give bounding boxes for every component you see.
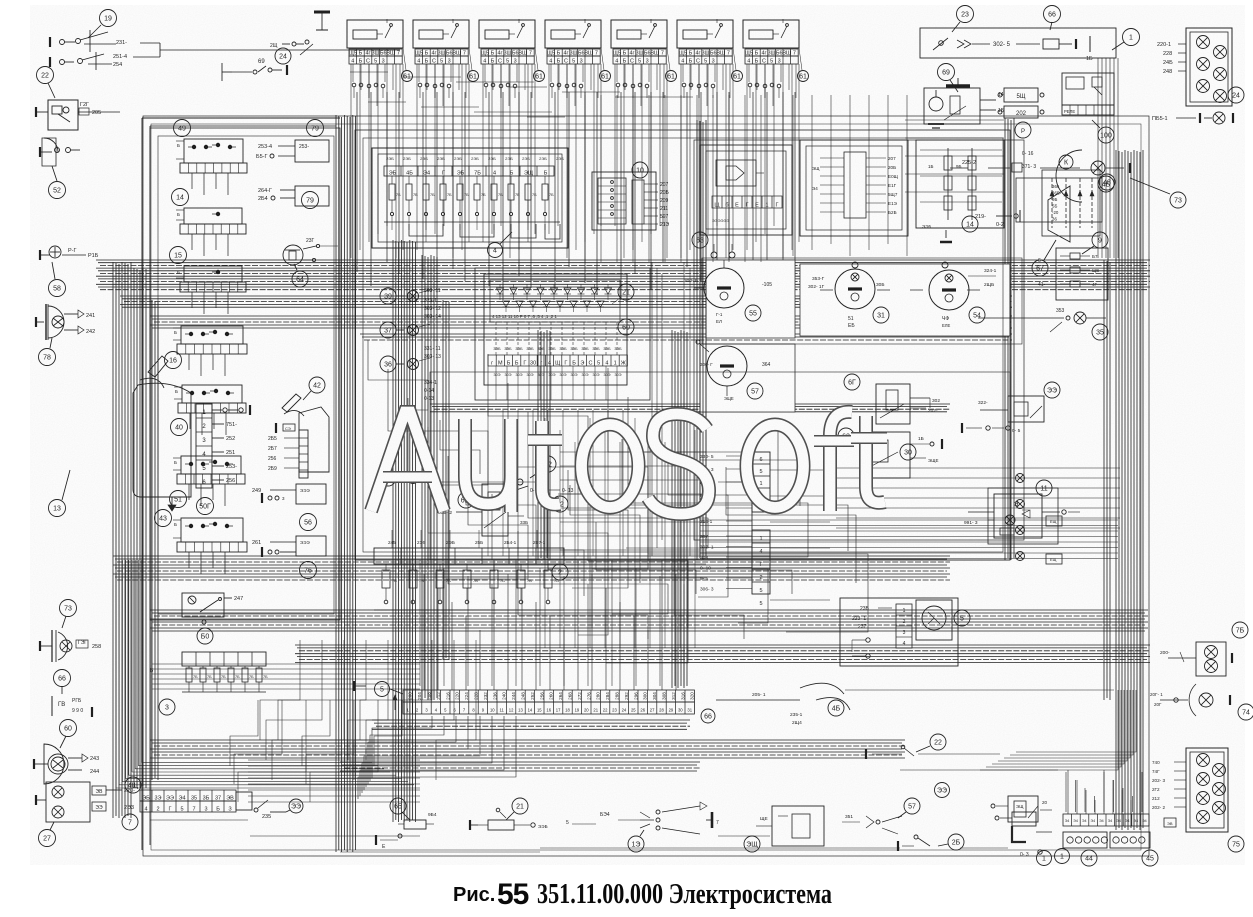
switch box S22 — [36, 67, 120, 131]
node 72 — [552, 496, 568, 512]
battery & fuses 69 — [924, 64, 1044, 139]
wire bus (band y650) — [295, 645, 1150, 662]
master terminal T1 — [270, 12, 330, 55]
fuse block 49 — [176, 139, 247, 173]
fuse block 50 — [173, 518, 247, 552]
switch 235 (bottom left) — [254, 799, 303, 820]
gauge cluster frames — [700, 260, 1010, 412]
node 1 — [1112, 29, 1140, 51]
sender block 46 (right) — [1016, 151, 1114, 222]
lamp 58 — [40, 246, 99, 297]
frame rectangles (left column) — [150, 128, 340, 620]
fuse box drop wires — [189, 173, 228, 574]
svg-text:55: 55 — [497, 878, 529, 911]
relay module K5 (top row) — [611, 19, 677, 106]
resistor 21 (bottom) — [470, 798, 548, 830]
fuse strip 3 (left bottom) — [150, 652, 268, 715]
label circle 40 — [171, 419, 188, 436]
fuse block 40 — [174, 385, 246, 413]
fuse block 14 — [176, 208, 246, 234]
label circle 16 — [165, 352, 182, 369]
verticals matrix to band — [488, 410, 623, 556]
fuse panel labels — [386, 156, 564, 161]
top center drop wires — [585, 95, 761, 262]
lamp panel 75 (bottom right) — [1152, 748, 1244, 852]
wire bus (top ring) — [96, 260, 1150, 307]
lamp 34 (mid-left low) — [380, 470, 419, 486]
indicator lamp 39 — [380, 288, 430, 304]
tail lamp block 27 — [36, 782, 135, 847]
wire bus (inner-left vertical) — [336, 115, 356, 852]
hazard unit 11 — [964, 480, 1080, 544]
dome lamp 73 (right) — [950, 150, 1186, 208]
indicator lamp 36 — [380, 356, 430, 372]
resistor block 9 — [1038, 232, 1108, 300]
relay module K3 (top row) — [479, 19, 545, 106]
switch 24/69 (top) — [222, 48, 291, 81]
wires connector 30 to right — [770, 470, 830, 600]
connector 56 (left) — [252, 484, 326, 531]
svg-text:Рис.: Рис. — [453, 884, 495, 906]
horn switch 64 — [283, 238, 338, 287]
top band drops right-center — [793, 95, 1002, 256]
main connector strip 66 — [375, 682, 716, 724]
terminal box (center right top) — [800, 140, 908, 236]
connector column 30 (center) — [700, 444, 916, 607]
frame rectangles (center) — [355, 130, 1010, 560]
connector 76 (left) — [252, 536, 326, 579]
wire bus (band y615) — [150, 610, 1148, 631]
twin lamp 76 (bottom right) — [1160, 622, 1248, 676]
motor unit (bottom center) — [744, 806, 824, 852]
label circle 79 — [302, 192, 319, 209]
watermark AutoSoft — [371, 412, 887, 514]
wire bus (x1010 vertical) — [1005, 118, 1014, 560]
battery (bottom right) — [995, 804, 1070, 864]
headlamp 73 — [40, 600, 101, 663]
center stair mesh — [368, 340, 868, 686]
resistor block 14 (right) — [916, 140, 1004, 232]
wire bus (right vertical ring) — [1104, 150, 1143, 830]
bottom connection runs — [150, 820, 1008, 852]
bottom-left stepped wires — [260, 640, 476, 780]
node 13 — [49, 470, 71, 517]
relay 61 (right mid) — [844, 374, 940, 424]
relay 247 (left bottom) — [182, 593, 243, 644]
relay module K6 (top row) — [677, 19, 743, 106]
wires relay row to bus — [357, 92, 795, 300]
relay module K2 (top row) — [413, 19, 479, 106]
fuse panel 4 (center top) — [372, 148, 568, 258]
label circle 50Г — [197, 498, 214, 515]
headlamp 60 (left) — [34, 720, 99, 785]
switch unit 10 — [592, 162, 670, 230]
wire bus (mid band y560) — [113, 556, 950, 580]
nested corner bends (bottom right) — [980, 690, 1142, 812]
stepped harness wires (center) — [440, 420, 856, 639]
right harness lines — [836, 468, 1120, 528]
caption — [453, 878, 832, 911]
switch 12 (center) — [510, 456, 574, 494]
fan wires into connector 66 — [410, 560, 676, 690]
label circle 15 — [170, 247, 187, 264]
horn 46 (bottom center) — [716, 683, 850, 726]
matrix wire labels — [493, 347, 622, 377]
bus under strip 66 — [372, 720, 690, 729]
connector pair 79 (left column top) — [256, 140, 329, 206]
wire bus (x545 vertical center) — [538, 330, 550, 560]
harness lines y520-560 right — [700, 520, 1118, 559]
gauge 55 (fuel) — [684, 244, 772, 324]
junction matrix 21/60 (center) — [475, 268, 650, 400]
lamp 35 (right) — [978, 308, 1108, 340]
bottom harness lines — [248, 760, 420, 802]
buzzer 67 (right) — [940, 186, 1070, 276]
relay module K4 (top row) — [545, 19, 611, 106]
charge line block (top right) — [920, 6, 1116, 63]
staircase under strip 66 — [358, 716, 516, 799]
logic unit 63 — [692, 145, 792, 248]
wire bus x700 — [697, 120, 706, 560]
wire bus (upper frame line) — [142, 118, 340, 850]
vertical lines right of matrix — [652, 262, 706, 556]
harness lines center-right — [560, 452, 706, 578]
relay 62 — [838, 428, 942, 478]
dimmer switch 42 — [268, 377, 329, 478]
gauge 164 (temp) — [696, 340, 771, 401]
fuse block 16 — [173, 326, 247, 354]
lamp 74 (bottom right) — [1150, 684, 1253, 720]
pump unit 5 (bottom right) — [840, 598, 970, 666]
fuse strip 2 (center bottom) — [374, 530, 568, 610]
center vertical drops — [545, 418, 695, 648]
sensor block 48 — [1042, 170, 1115, 236]
wire drops relay row — [351, 64, 799, 258]
label circle 14 — [172, 189, 189, 206]
headlamp 78 — [36, 304, 95, 366]
wire bus (second ring) — [150, 316, 1012, 340]
relay 68 (center) — [438, 484, 528, 536]
relay module K7 (top row) — [743, 19, 809, 106]
relay 34 (bottom right) — [935, 783, 1053, 823]
terminal (bottom left of strip) — [354, 681, 366, 691]
lamp unit 52 — [40, 138, 80, 199]
fuse block 51 — [173, 456, 245, 484]
steering-column connector 43 — [133, 356, 250, 527]
label circle 51 — [170, 491, 187, 508]
relay module K1 (top row) — [347, 19, 413, 106]
switch 22 (bottom right) — [866, 734, 1000, 759]
gauge 34 (oil) — [910, 262, 997, 328]
label circle 49 — [174, 120, 191, 137]
device 66 (left) — [52, 670, 92, 718]
switch 57 (bottom right) — [842, 798, 920, 834]
outer frame rectangles — [143, 116, 1149, 856]
indicator lamps (right of column) — [1016, 474, 1063, 565]
svg-text:351.11.00.000 Электросистема: 351.11.00.000 Электросистема — [537, 879, 832, 910]
gauge 31 (ammeter) — [808, 262, 890, 329]
fuse block 15 — [176, 266, 246, 292]
switch 28 (bottom right) — [898, 834, 964, 851]
wire bus under matrix — [430, 404, 950, 412]
wire bus (x680 vertical center) — [672, 330, 687, 688]
relay 99 (right mid) — [962, 382, 1060, 434]
lamp 24 line — [1152, 112, 1233, 124]
top right drops — [905, 58, 1118, 258]
wire bus (bottom band y765) — [340, 762, 700, 771]
wire runs right bottom — [845, 690, 1114, 770]
label circle 79 — [307, 120, 324, 137]
frame rectangles (right) — [694, 140, 1024, 540]
connector strips 44/45 (bottom right) — [1037, 814, 1159, 866]
nested corner bends (bottom left) — [116, 560, 420, 788]
indicator lamp 37 — [380, 322, 430, 338]
wire bus (column x395) — [393, 240, 449, 822]
regulator relay (top right) — [1062, 73, 1114, 143]
instrument lamp panel (top right) — [1157, 28, 1244, 106]
switch S19 (light switch, top-left) — [50, 10, 400, 71]
bottom-left harness — [152, 664, 420, 802]
wire bus (bottom band y745) — [150, 740, 905, 758]
resistor 65 (bottom) — [376, 798, 437, 850]
wire bus (left vertical pair) — [113, 262, 158, 818]
connector block 7 (bottom left) — [122, 777, 252, 830]
wires into strips 44/45 — [1068, 770, 1140, 814]
jumper stubs below relays — [350, 72, 693, 117]
switch 13 (bottom center) — [566, 802, 719, 852]
wire labels (mid-left) — [424, 288, 441, 402]
